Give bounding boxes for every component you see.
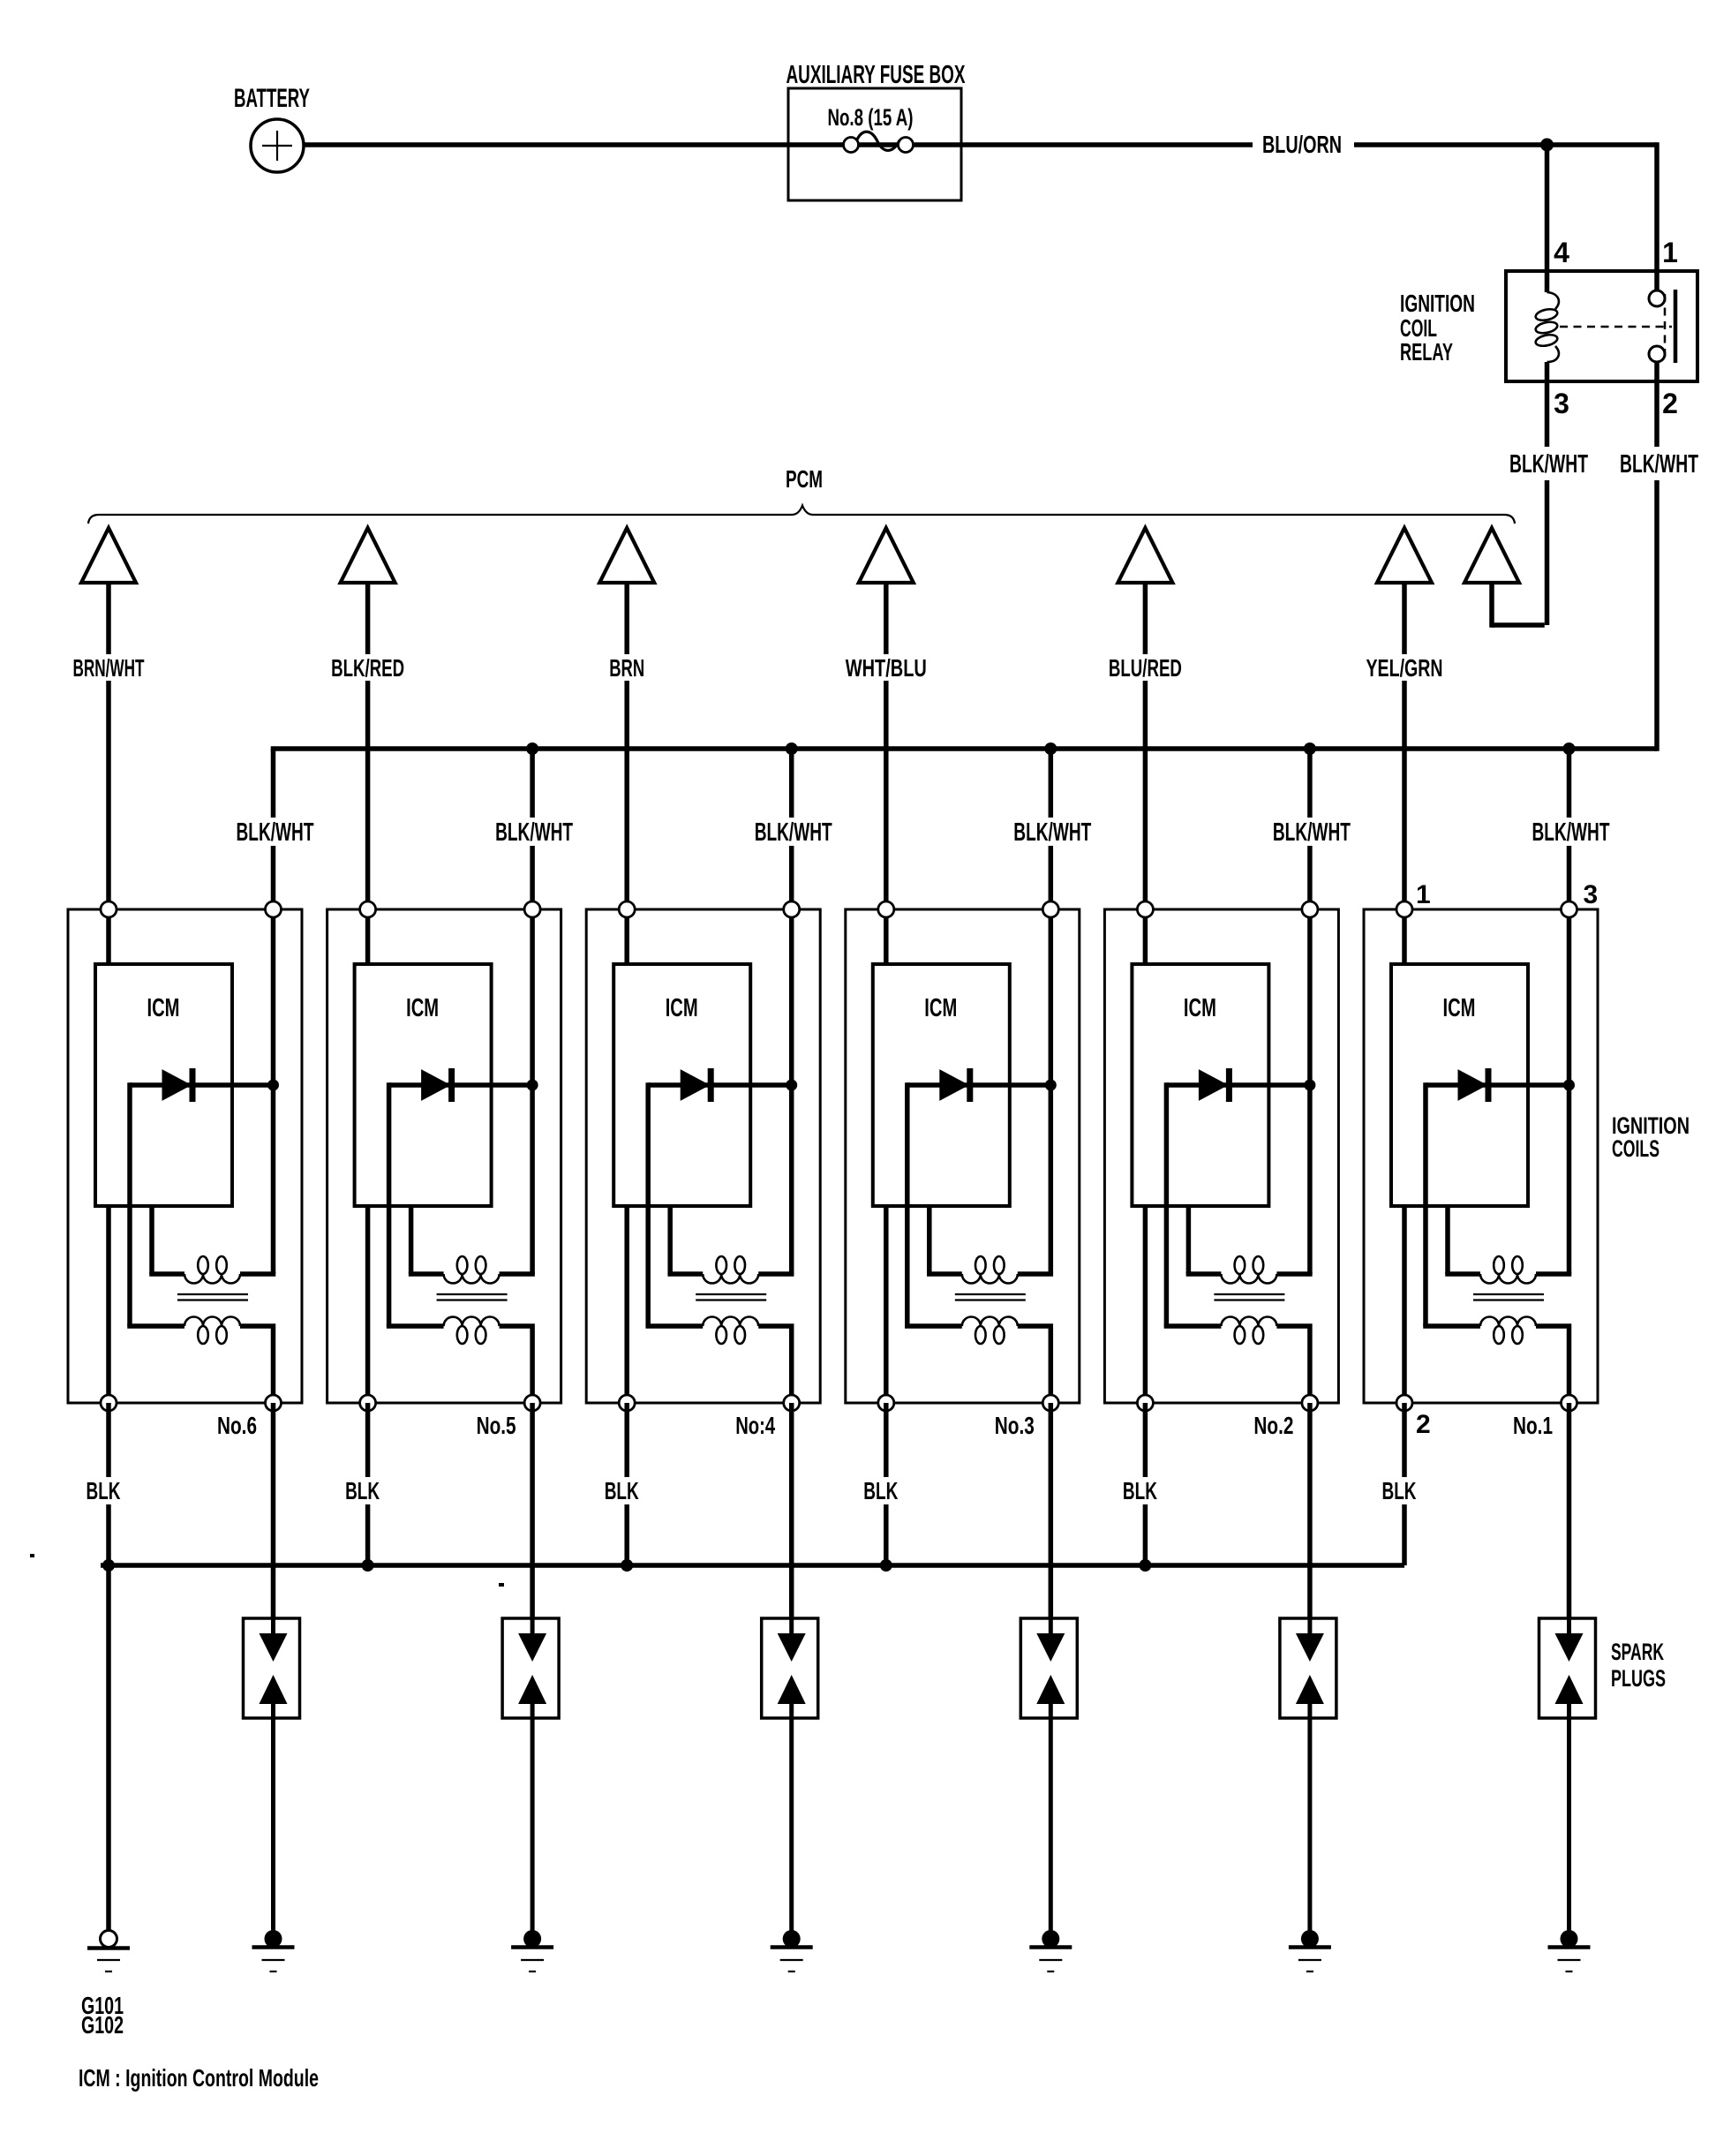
wire ground pin No:4 to ground bus xyxy=(624,1403,629,1565)
wire secondary to HT pin No.6 xyxy=(240,1326,274,1403)
svg-text:ICM: ICM xyxy=(666,994,698,1022)
wire HT pin No.6 to spark plug xyxy=(271,1403,276,1618)
ICM label No.6 xyxy=(147,994,180,1022)
cylinder number label No.6 xyxy=(217,1412,257,1439)
connector triangle PCM output pin (BRN/WHT) xyxy=(81,528,136,583)
wire ICM output to primary No.5 xyxy=(409,1206,444,1274)
transformer core No.5 xyxy=(437,1294,508,1300)
connector pin bottom-left No:4 xyxy=(619,1395,635,1411)
ICM label No.3 xyxy=(924,994,957,1022)
BLK wire label No.1 xyxy=(1376,1477,1422,1504)
svg-text:3: 3 xyxy=(1584,880,1599,909)
wire spark plug 5 to ground xyxy=(531,1718,535,1939)
ignition coil No.5 outer box xyxy=(327,909,561,1403)
wire primary to supply No.5 xyxy=(500,1271,535,1277)
svg-text:BLU/ORN: BLU/ORN xyxy=(1262,131,1342,158)
svg-text:WHT/BLU: WHT/BLU xyxy=(846,654,927,682)
wire to relay pin 4 (coil) xyxy=(1545,145,1550,292)
relay coil (pins 4-3) xyxy=(1535,292,1559,381)
svg-text:BLK/WHT: BLK/WHT xyxy=(1013,818,1091,847)
relay pin 3 number xyxy=(1554,388,1569,419)
ignition coil No.2 outer box xyxy=(1104,909,1338,1403)
wire trigger into ICM No.1 xyxy=(1402,909,1407,964)
wire ICM No:4 to ground pin xyxy=(624,1206,629,1403)
wire diode loop to secondary No.3 xyxy=(905,1082,910,1326)
svg-text:IGNITION: IGNITION xyxy=(1400,290,1475,317)
junction node bus to coil No.5 xyxy=(526,743,538,755)
svg-text:3: 3 xyxy=(1554,388,1569,419)
relay switch contact pin 1 xyxy=(1649,290,1665,306)
ignition coil No.6 outer box xyxy=(68,909,302,1403)
svg-text:ICM: ICM xyxy=(1184,994,1216,1022)
diode No.1 xyxy=(1426,1068,1569,1102)
svg-text:No.3: No.3 xyxy=(995,1412,1035,1439)
svg-text:PCM: PCM xyxy=(786,465,823,493)
diode No.5 xyxy=(389,1068,532,1102)
wire diode loop to secondary No.6 xyxy=(127,1082,132,1326)
wire bus branch down to coil No.2 xyxy=(1307,749,1313,909)
wire primary to supply No:4 xyxy=(758,1271,794,1277)
svg-text:No.1: No.1 xyxy=(1513,1412,1553,1439)
cylinder number label No.2 xyxy=(1253,1412,1293,1439)
connector triangle PCM output pin (WHT/BLU) xyxy=(859,528,914,583)
wire secondary to HT pin No:4 xyxy=(758,1326,792,1403)
wire supply No.6 xyxy=(271,909,276,1274)
diode No:4 xyxy=(648,1068,792,1102)
ground name G101 xyxy=(81,1992,124,2019)
svg-text:G102: G102 xyxy=(81,2011,124,2039)
wire ground pin No.1 to ground bus xyxy=(1402,1403,1407,1565)
wire ICM No.2 to ground pin xyxy=(1143,1206,1148,1403)
wire bus branch down to coil No.4 xyxy=(789,749,794,909)
svg-text:BLK: BLK xyxy=(863,1477,898,1504)
coil No.1 pin 3 number xyxy=(1584,880,1599,909)
ground symbol spark plug 4 xyxy=(771,1948,813,1972)
wire HT pin No:4 to spark plug xyxy=(789,1403,794,1618)
ground name G102 xyxy=(81,2011,124,2039)
connector triangle PCM output pin (BRN) xyxy=(599,528,654,583)
wire spark plug 3 to ground xyxy=(1049,1718,1053,1939)
wire bus branch down to coil No.5 xyxy=(530,749,535,909)
junction node ground bus 4 xyxy=(880,1559,892,1572)
svg-text:BLK: BLK xyxy=(1123,1477,1157,1504)
svg-text:YEL/GRN: YEL/GRN xyxy=(1366,654,1443,682)
junction node diode to supply No.2 xyxy=(1304,1080,1315,1091)
fuse element No.8 xyxy=(844,132,914,152)
junction node ground bus 5 xyxy=(1139,1559,1151,1572)
ground symbol spark plug 5 xyxy=(511,1948,553,1972)
wire PCM triangle 3 down to ICM block xyxy=(624,583,629,909)
ignition coil relay label xyxy=(1400,290,1475,366)
spark plug 3 box xyxy=(1020,1618,1077,1718)
diode No.6 xyxy=(130,1068,274,1102)
ICM label No.5 xyxy=(406,994,439,1022)
svg-text:No.8 (15 A): No.8 (15 A) xyxy=(828,104,914,131)
wire spark plug 1 to ground xyxy=(1567,1718,1571,1939)
svg-text:BLK/RED: BLK/RED xyxy=(331,654,404,682)
ground symbol spark plug 2 xyxy=(1289,1948,1331,1972)
cylinder number label No.1 xyxy=(1513,1412,1553,1439)
junction node bus to coil No.2 xyxy=(1304,743,1316,755)
spark plug 3 gap electrodes xyxy=(1036,1618,1065,1718)
diode No.2 xyxy=(1166,1068,1310,1102)
BLK/RED wire label xyxy=(327,654,409,682)
relay dashed actuator link xyxy=(1560,294,1672,360)
svg-text:BRN/WHT: BRN/WHT xyxy=(73,654,145,682)
svg-text:1: 1 xyxy=(1662,237,1678,268)
wire trigger into ICM No.5 xyxy=(365,909,371,964)
connector pin top-right No.3 xyxy=(1042,901,1058,917)
wire secondary left No.6 xyxy=(127,1323,184,1329)
wire HT pin No.5 to spark plug xyxy=(530,1403,535,1618)
secondary winding No.6 xyxy=(184,1317,240,1345)
ground node spark plug 4 xyxy=(783,1930,801,1948)
coil No.1 pin 1 number xyxy=(1416,880,1431,909)
wire secondary to HT pin No.1 xyxy=(1536,1326,1569,1403)
ignition coil No.1 outer box xyxy=(1364,909,1598,1403)
primary winding No.1 xyxy=(1480,1256,1536,1284)
svg-text:4: 4 xyxy=(1554,237,1569,268)
BLK/WHT branch label 1 xyxy=(233,818,320,847)
spark plug 5 box xyxy=(502,1618,559,1718)
wire bus branch down to coil No.3 xyxy=(1049,749,1054,909)
ICM box No.1 xyxy=(1391,964,1528,1206)
connector pin top-right No.5 xyxy=(524,901,540,917)
connector pin top-right No.6 xyxy=(266,901,282,917)
spark plug 5 gap electrodes xyxy=(518,1618,546,1718)
wire diode loop to secondary No.5 xyxy=(387,1082,392,1326)
connector pin bottom-right No.3 xyxy=(1042,1395,1058,1411)
wire ground pin No.5 to ground bus xyxy=(365,1403,371,1565)
spark plug 2 gap electrodes xyxy=(1296,1618,1324,1718)
relay pin 1 number xyxy=(1662,237,1678,268)
cylinder number label No.3 xyxy=(995,1412,1035,1439)
ICM label No.2 xyxy=(1184,994,1216,1022)
connector pin bottom-left No.3 xyxy=(878,1395,894,1411)
connector pin bottom-left No.5 xyxy=(360,1395,376,1411)
ICM box No:4 xyxy=(613,964,750,1206)
junction node diode to supply No.3 xyxy=(1045,1080,1057,1091)
transformer core No.2 xyxy=(1214,1294,1284,1300)
WHT/BLU wire label xyxy=(841,654,931,682)
junction node diode to supply No.6 xyxy=(267,1080,279,1091)
connector pin bottom-right No.2 xyxy=(1302,1395,1318,1411)
wire HT pin No.2 to spark plug xyxy=(1307,1403,1313,1618)
secondary winding No:4 xyxy=(703,1317,758,1345)
wire diode loop to secondary No:4 xyxy=(645,1082,651,1326)
BLK/WHT distribution bus wire xyxy=(274,749,1658,751)
ignition coil relay box xyxy=(1506,271,1697,381)
ground node spark plug 2 xyxy=(1301,1930,1319,1948)
ignition coils label xyxy=(1612,1112,1690,1162)
BLK/WHT branch label 4 xyxy=(1010,818,1096,847)
BLK ground bus wire xyxy=(101,1563,1404,1568)
wire ground pin No.2 to ground bus xyxy=(1143,1403,1148,1565)
ground symbol G101/G102 xyxy=(87,1949,130,1972)
connector pin top-right No.2 xyxy=(1302,901,1318,917)
BLU/RED wire label xyxy=(1104,654,1186,682)
ignition coil No:4 outer box xyxy=(586,909,820,1403)
svg-text:BLK: BLK xyxy=(87,1477,121,1504)
wire primary to supply No.2 xyxy=(1276,1271,1312,1277)
wire HT pin No.1 to spark plug xyxy=(1567,1403,1572,1618)
connector pin top-right No.1 xyxy=(1562,901,1577,917)
PCM label xyxy=(786,465,823,493)
svg-text:BATTERY: BATTERY xyxy=(234,84,310,113)
connector triangle PCM output pin (BLU/RED) xyxy=(1118,528,1172,583)
svg-text:BLK/WHT: BLK/WHT xyxy=(1532,818,1610,847)
transformer core No:4 xyxy=(696,1294,766,1300)
wire ICM output to primary No.1 xyxy=(1445,1206,1480,1274)
svg-text:BLK/WHT: BLK/WHT xyxy=(1273,818,1351,847)
BLK wire label No.6 xyxy=(80,1477,126,1504)
svg-text:BLK/WHT: BLK/WHT xyxy=(1509,450,1588,479)
wire ground bus to G101/G102 xyxy=(106,1565,111,1931)
wire supply No.5 xyxy=(530,909,535,1274)
BRN wire label xyxy=(605,654,649,682)
wire primary to supply No.1 xyxy=(1536,1271,1571,1277)
ground node spark plug 3 xyxy=(1042,1930,1059,1948)
connector pin bottom-right No:4 xyxy=(784,1395,800,1411)
wire bus branch down to coil No.1 xyxy=(1567,749,1572,909)
wire PCM triangle 1 down to ICM block xyxy=(106,583,111,909)
BLK/WHT branch label 3 xyxy=(751,818,838,847)
wire trigger into ICM No.3 xyxy=(884,909,889,964)
BLK wire label No:4 xyxy=(598,1477,644,1504)
junction node ground bus 1 xyxy=(102,1559,115,1572)
wire secondary left No.2 xyxy=(1164,1323,1222,1329)
connector pin top-left No.1 xyxy=(1396,901,1412,917)
connector pin bottom-left No.6 xyxy=(101,1395,117,1411)
BLK/WHT branch label 5 xyxy=(1269,818,1356,847)
connector pin top-left No.5 xyxy=(360,901,376,917)
connector triangle PCM output pin (BLK/WHT relay drive) xyxy=(1464,528,1519,583)
spark plugs label xyxy=(1611,1639,1666,1692)
wire secondary left No.1 xyxy=(1423,1323,1480,1329)
junction node diode to supply No.1 xyxy=(1563,1080,1575,1091)
wire supply No.2 xyxy=(1307,909,1313,1274)
wire to relay pin 1 xyxy=(1654,142,1660,291)
wire ground pin No.6 to ground bus xyxy=(106,1403,111,1565)
wire ICM output to primary No.3 xyxy=(927,1206,962,1274)
ICM label No.1 xyxy=(1443,994,1476,1022)
ignition coil No.3 outer box xyxy=(846,909,1080,1403)
svg-text:BLK/WHT: BLK/WHT xyxy=(495,818,573,847)
auxiliary fuse box label xyxy=(786,61,966,89)
wire trigger into ICM No:4 xyxy=(624,909,629,964)
wire PCM triangle 2 down to ICM block xyxy=(365,583,371,909)
svg-text:No:4: No:4 xyxy=(735,1412,775,1439)
secondary winding No.3 xyxy=(962,1317,1018,1345)
connector pin bottom-right No.6 xyxy=(266,1395,282,1411)
wire diode loop to secondary No.1 xyxy=(1423,1082,1428,1326)
wire ICM No.5 to ground pin xyxy=(365,1206,371,1403)
wire ICM output to primary No:4 xyxy=(667,1206,703,1274)
wire fuse box to relay branch xyxy=(1354,142,1657,147)
svg-text:No.2: No.2 xyxy=(1253,1412,1293,1439)
ICM box No.6 xyxy=(95,964,232,1206)
svg-text:ICM : Ignition Control Module: ICM : Ignition Control Module xyxy=(79,2064,319,2092)
primary winding No:4 xyxy=(703,1256,758,1284)
transformer core No.3 xyxy=(955,1294,1026,1300)
relay pin 4 number xyxy=(1554,237,1569,268)
ICM box No.2 xyxy=(1132,964,1268,1206)
BRN/WHT wire label xyxy=(69,654,149,682)
connector pin bottom-left No.2 xyxy=(1137,1395,1153,1411)
svg-text:COILS: COILS xyxy=(1612,1135,1660,1162)
BLK wire label No.5 xyxy=(340,1477,386,1504)
PCM bracket (brace) xyxy=(88,506,1515,524)
connector pin bottom-right No.1 xyxy=(1562,1395,1577,1411)
connector triangle PCM output pin (YEL/GRN) xyxy=(1377,528,1432,583)
wire ICM output to primary No.2 xyxy=(1186,1206,1222,1274)
svg-text:BLK/WHT: BLK/WHT xyxy=(237,818,314,847)
svg-text:ICM: ICM xyxy=(406,994,439,1022)
junction node diode to supply No:4 xyxy=(786,1080,797,1091)
wire primary to supply No.6 xyxy=(240,1271,275,1277)
junction node diode to supply No.5 xyxy=(527,1080,538,1091)
ICM abbreviation note xyxy=(79,2064,319,2092)
YEL/GRN wire label xyxy=(1362,654,1448,682)
junction node bus to coil No.3 xyxy=(1044,743,1057,755)
ICM box No.3 xyxy=(873,964,1010,1206)
ground node spark plug 6 xyxy=(265,1930,282,1948)
wire ICM No.6 to ground pin xyxy=(106,1206,111,1403)
wire supply No:4 xyxy=(789,909,794,1274)
svg-text:1: 1 xyxy=(1416,880,1431,909)
BLU/ORN wire label xyxy=(1262,131,1342,158)
svg-text:BLK/WHT: BLK/WHT xyxy=(755,818,832,847)
primary winding No.2 xyxy=(1221,1256,1276,1284)
wire PCM triangle 4 down to ICM block xyxy=(884,583,889,909)
wire PCM triangle 5 down to ICM block xyxy=(1143,583,1148,909)
wire ground pin No.3 to ground bus xyxy=(884,1403,889,1565)
stray mark xyxy=(30,1554,504,1587)
connector pin top-left No.3 xyxy=(878,901,894,917)
auxiliary fuse box xyxy=(788,88,961,200)
svg-text:No.6: No.6 xyxy=(217,1412,257,1439)
coil No.1 pin 2 number xyxy=(1416,1410,1431,1439)
wire supply No.3 xyxy=(1049,909,1054,1274)
wire trigger into ICM No.2 xyxy=(1143,909,1148,964)
BLK/WHT branch label 2 xyxy=(492,818,578,847)
ground symbol spark plug 3 xyxy=(1029,1948,1072,1972)
junction node on BLU/ORN wire xyxy=(1540,139,1554,152)
relay switch contact pin 2 xyxy=(1649,346,1665,362)
primary winding No.3 xyxy=(962,1256,1018,1284)
svg-text:BLU/RED: BLU/RED xyxy=(1109,654,1182,682)
svg-text:BLK/WHT: BLK/WHT xyxy=(1620,450,1698,479)
wire spark plug 4 to ground xyxy=(789,1718,794,1939)
spark plug 6 gap electrodes xyxy=(260,1618,288,1718)
svg-text:BLK: BLK xyxy=(605,1477,639,1504)
wire bus left end down to coil No.6 xyxy=(271,749,276,909)
wire secondary left No.5 xyxy=(387,1323,444,1329)
svg-text:No.5: No.5 xyxy=(477,1412,516,1439)
svg-text:AUXILIARY FUSE BOX: AUXILIARY FUSE BOX xyxy=(786,61,966,89)
cylinder number label No:4 xyxy=(735,1412,775,1439)
wire relay pin 3 down to PCM triangle xyxy=(1492,381,1547,628)
fuse No.8 (15 A) value label xyxy=(828,104,914,131)
ICM box No.5 xyxy=(355,964,492,1206)
junction node ground bus 3 xyxy=(621,1559,633,1572)
secondary winding No.1 xyxy=(1480,1317,1536,1345)
ground node spark plug 5 xyxy=(523,1930,541,1948)
spark plug 4 gap electrodes xyxy=(778,1618,806,1718)
wire secondary left No.3 xyxy=(905,1323,962,1329)
ICM label No:4 xyxy=(666,994,698,1022)
secondary winding No.2 xyxy=(1221,1317,1276,1345)
wire spark plug 2 to ground xyxy=(1307,1718,1312,1939)
BLK/WHT label pin3 wire xyxy=(1506,447,1592,480)
connector pin top-left No.2 xyxy=(1137,901,1153,917)
wire primary to supply No.3 xyxy=(1018,1271,1053,1277)
svg-text:2: 2 xyxy=(1416,1410,1431,1439)
svg-text:BLK: BLK xyxy=(1382,1477,1417,1504)
secondary winding No.5 xyxy=(444,1317,500,1345)
svg-text:PLUGS: PLUGS xyxy=(1611,1665,1666,1692)
battery positive terminal xyxy=(251,119,304,172)
svg-text:RELAY: RELAY xyxy=(1400,338,1453,366)
transformer core No.1 xyxy=(1473,1294,1544,1300)
connector pin bottom-left No.1 xyxy=(1396,1395,1412,1411)
BLK/WHT branch label 6 xyxy=(1529,818,1615,847)
connector pin top-left No.6 xyxy=(101,901,117,917)
junction node bus to coil No.1 xyxy=(1563,743,1576,755)
BLK/WHT label pin2 wire xyxy=(1616,447,1702,480)
wire relay pin 2 down to BLK/WHT bus xyxy=(1654,362,1660,751)
junction node bus to coil No.4 xyxy=(786,743,798,755)
spark plug 4 box xyxy=(762,1618,818,1718)
relay switch bar xyxy=(1674,290,1678,363)
svg-text:ICM: ICM xyxy=(924,994,957,1022)
wire ICM No.1 to ground pin xyxy=(1402,1206,1407,1403)
spark plug 6 box xyxy=(244,1618,300,1718)
transformer core No.6 xyxy=(177,1294,248,1300)
junction node ground bus 2 xyxy=(362,1559,374,1572)
spark plug 2 box xyxy=(1280,1618,1336,1718)
svg-text:ICM: ICM xyxy=(1443,994,1476,1022)
wire supply No.1 xyxy=(1567,909,1572,1274)
wire secondary to HT pin No.5 xyxy=(500,1326,533,1403)
connector pin top-left No:4 xyxy=(619,901,635,917)
primary winding No.6 xyxy=(184,1256,240,1284)
wire PCM triangle 6 down to ICM block xyxy=(1402,583,1407,909)
wire battery to fuse box (BLU/ORN) xyxy=(304,142,1253,147)
wire secondary left No:4 xyxy=(645,1323,703,1329)
ground symbol spark plug 1 xyxy=(1548,1948,1591,1972)
wire secondary to HT pin No.2 xyxy=(1276,1326,1310,1403)
ground terminal G101/G102 xyxy=(101,1931,117,1948)
diode No.3 xyxy=(907,1068,1051,1102)
BLK wire label No.2 xyxy=(1117,1477,1163,1504)
spark plug 1 gap electrodes xyxy=(1555,1618,1584,1718)
ground node spark plug 1 xyxy=(1561,1930,1578,1948)
connector pin bottom-right No.5 xyxy=(524,1395,540,1411)
BLK wire label No.3 xyxy=(858,1477,904,1504)
primary winding No.5 xyxy=(444,1256,500,1284)
wire trigger into ICM No.6 xyxy=(106,909,111,964)
wire spark plug 6 to ground xyxy=(271,1718,275,1939)
wire ICM output to primary No.6 xyxy=(149,1206,184,1274)
svg-text:SPARK: SPARK xyxy=(1611,1639,1664,1665)
svg-text:BLK: BLK xyxy=(345,1477,380,1504)
wire ICM No.3 to ground pin xyxy=(884,1206,889,1403)
svg-text:ICM: ICM xyxy=(147,994,180,1022)
connector triangle PCM output pin (BLK/RED) xyxy=(341,528,395,583)
cylinder number label No.5 xyxy=(477,1412,516,1439)
svg-text:BRN: BRN xyxy=(609,654,644,682)
